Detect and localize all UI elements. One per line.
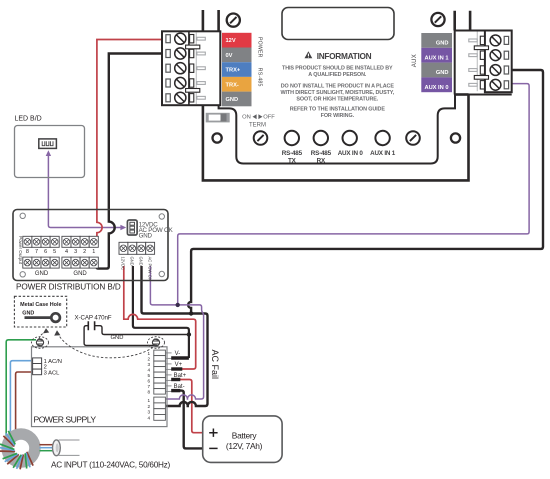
svg-text:WITH DIRECT SUNLIGHT, MOISTURE: WITH DIRECT SUNLIGHT, MOISTURE, DUSTY,: [280, 90, 394, 96]
svg-text:8: 8: [26, 249, 29, 255]
svg-text:GND: GND: [130, 257, 135, 266]
svg-text:AUX IN 1: AUX IN 1: [370, 150, 396, 157]
svg-text:3: 3: [74, 249, 77, 255]
svg-text:A QUALIFIED PERSON.: A QUALIFIED PERSON.: [308, 72, 367, 78]
svg-text:TRX+: TRX+: [226, 68, 241, 74]
svg-text:RX: RX: [317, 158, 326, 165]
svg-text:AUX IN 0: AUX IN 0: [424, 85, 448, 91]
svg-text:0V: 0V: [226, 53, 233, 59]
svg-text:SOOT, OR HIGH TEMPERATURE.: SOOT, OR HIGH TEMPERATURE.: [296, 97, 378, 103]
svg-text:RS-485: RS-485: [257, 68, 263, 87]
svg-text:4: 4: [148, 415, 151, 420]
svg-text:3: 3: [148, 362, 151, 367]
svg-text:1: 1: [148, 398, 151, 403]
svg-text:Battery: Battery: [232, 431, 258, 441]
svg-text:RS-485: RS-485: [282, 150, 303, 157]
svg-text:Power Output: Power Output: [18, 236, 23, 265]
svg-text:TX: TX: [288, 158, 297, 165]
svg-text:X-CAP 470nF: X-CAP 470nF: [75, 315, 112, 322]
svg-text:GND: GND: [111, 335, 124, 341]
svg-text:TERM: TERM: [249, 123, 266, 129]
svg-text:6: 6: [148, 378, 151, 383]
svg-text:2: 2: [148, 356, 151, 361]
svg-text:GND: GND: [436, 70, 449, 76]
svg-text:FOR WIRING.: FOR WIRING.: [321, 113, 355, 119]
svg-text:Metal Case Hole: Metal Case Hole: [20, 302, 61, 308]
svg-text:1: 1: [92, 249, 95, 255]
svg-text:POWER DISTRIBUTION B/D: POWER DISTRIBUTION B/D: [16, 282, 121, 291]
svg-text:V-: V-: [175, 351, 181, 357]
svg-text:POWER SUPPLY: POWER SUPPLY: [34, 414, 97, 424]
svg-text:TRX-: TRX-: [226, 82, 239, 88]
svg-text:LED B/D: LED B/D: [15, 116, 42, 123]
svg-text:RS-485: RS-485: [311, 150, 332, 157]
svg-text:AC POW OK: AC POW OK: [147, 257, 152, 281]
svg-text:THIS PRODUCT SHOULD BE INSTALL: THIS PRODUCT SHOULD BE INSTALLED BY: [282, 65, 393, 71]
svg-text:7: 7: [148, 384, 151, 389]
svg-text:3: 3: [148, 410, 151, 415]
svg-text:INFORMATION: INFORMATION: [317, 51, 372, 61]
svg-text:GND: GND: [22, 310, 34, 316]
svg-text:12VDC: 12VDC: [121, 257, 126, 271]
svg-text:3 ACL: 3 ACL: [44, 370, 61, 376]
svg-text:V+: V+: [175, 362, 183, 368]
svg-text:DO NOT INSTALL THE PRODUCT IN: DO NOT INSTALL THE PRODUCT IN A PLACE: [281, 83, 395, 89]
svg-text:AUX IN 1: AUX IN 1: [424, 55, 448, 61]
svg-text:4: 4: [148, 367, 151, 372]
svg-text:GND: GND: [35, 271, 49, 277]
svg-text:5: 5: [148, 373, 151, 378]
svg-text:7: 7: [35, 249, 38, 255]
svg-text:GND: GND: [139, 232, 153, 239]
svg-text:6: 6: [44, 249, 47, 255]
svg-text:8: 8: [148, 389, 151, 394]
svg-text:12V: 12V: [226, 38, 236, 44]
svg-text:4: 4: [65, 249, 68, 255]
svg-text:GND: GND: [226, 97, 239, 103]
svg-text:GND: GND: [138, 257, 143, 266]
svg-text:1: 1: [148, 351, 151, 356]
svg-text:Bat-: Bat-: [174, 384, 185, 390]
svg-text:AC INPUT (110-240VAC, 50/60Hz): AC INPUT (110-240VAC, 50/60Hz): [51, 460, 171, 469]
svg-text:GND: GND: [73, 271, 87, 277]
svg-text:REFER TO THE INSTALLATION GUID: REFER TO THE INSTALLATION GUIDE: [290, 106, 386, 112]
svg-text:POWER: POWER: [257, 37, 263, 58]
svg-text:(12V, 7Ah): (12V, 7Ah): [226, 441, 263, 451]
svg-text:OFF: OFF: [263, 114, 275, 120]
svg-text:ON: ON: [242, 114, 251, 120]
svg-text:AC Fail: AC Fail: [210, 350, 220, 380]
svg-text:5: 5: [53, 249, 56, 255]
svg-text:AUX: AUX: [412, 54, 418, 67]
svg-text:AUX IN 0: AUX IN 0: [338, 150, 364, 157]
svg-text:2: 2: [83, 249, 86, 255]
svg-text:Bat+: Bat+: [174, 373, 187, 379]
svg-text:2: 2: [148, 404, 151, 409]
svg-text:GND: GND: [436, 41, 449, 47]
